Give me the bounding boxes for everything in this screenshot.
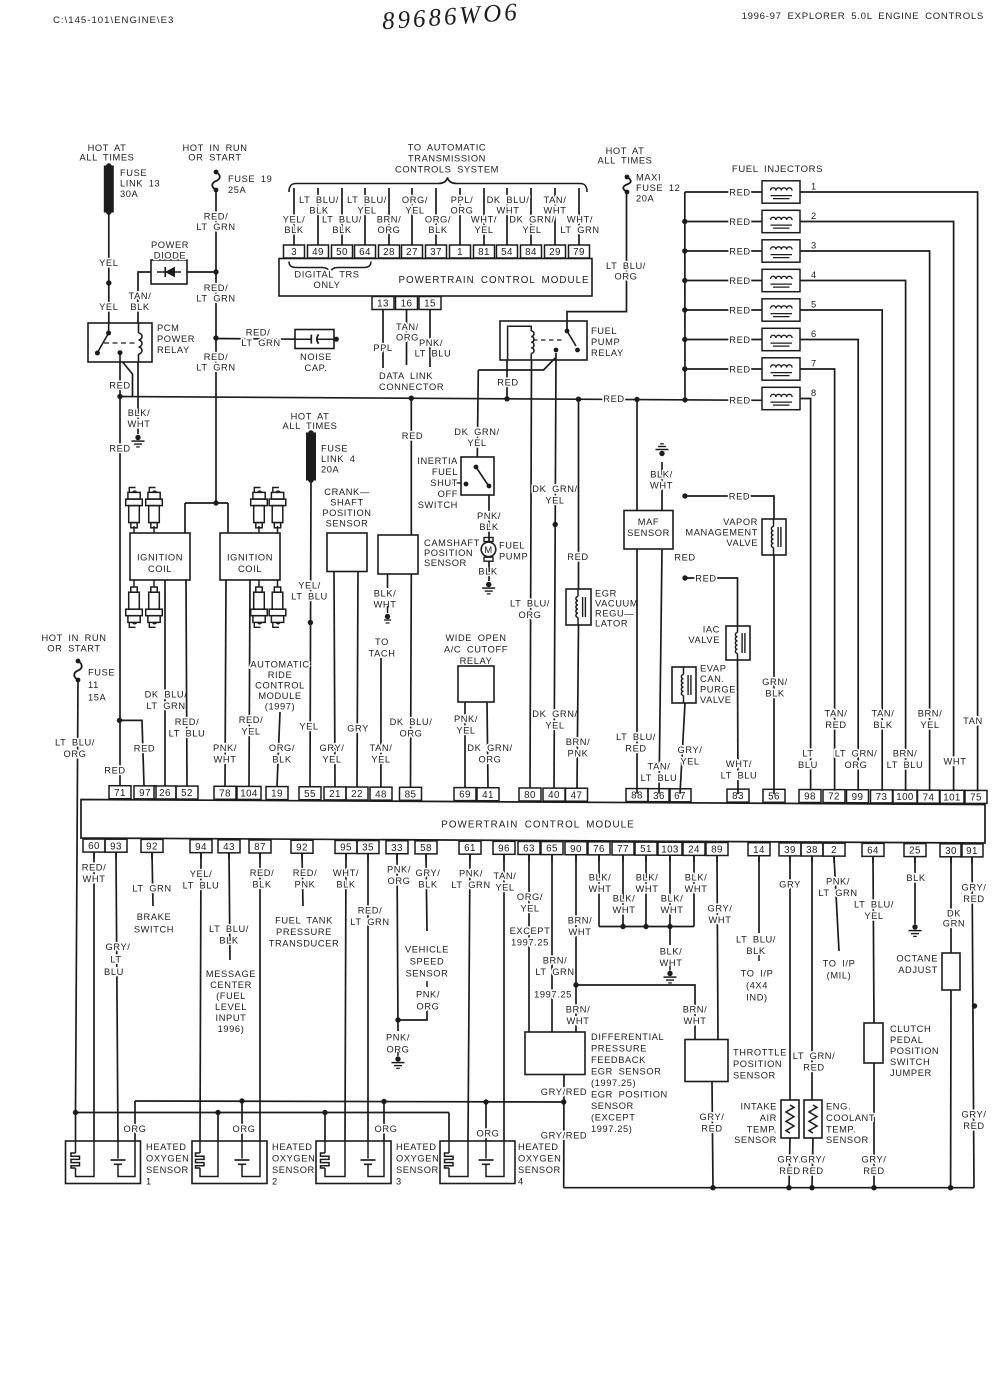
svg-text:DK BLU/: DK BLU/ (145, 690, 188, 700)
svg-text:YEL: YEL (920, 720, 939, 730)
svg-text:PNK/: PNK/ (826, 877, 850, 887)
wire RED feed injector 6 (685, 339, 762, 341)
svg-text:RED: RED (729, 492, 750, 502)
svg-text:RED/: RED/ (204, 212, 229, 222)
svg-text:YEL: YEL (545, 496, 564, 506)
svg-text:89: 89 (711, 845, 723, 856)
svg-text:FUEL: FUEL (432, 467, 458, 477)
svg-text:97: 97 (139, 788, 151, 799)
svg-text:HOT IN RUN: HOT IN RUN (41, 633, 106, 643)
svg-text:RELAY: RELAY (591, 348, 624, 358)
vapor management valve box (762, 519, 786, 555)
PCM pin 90 (bottom row) (565, 842, 587, 855)
svg-text:CONNECTOR: CONNECTOR (379, 382, 444, 392)
svg-text:GRY/: GRY/ (678, 745, 703, 755)
svg-text:(1997): (1997) (265, 702, 295, 712)
svg-text:85: 85 (405, 789, 417, 800)
PCM pin 48 (top row) (370, 787, 392, 800)
wire LT BLU/ORG into sensor 1 heater (75, 1113, 77, 1142)
wire ORG/YEL pin 63 to DPFE sensor (528, 854, 530, 1032)
svg-text:25A: 25A (228, 185, 247, 195)
svg-text:16: 16 (401, 299, 413, 310)
svg-text:103: 103 (661, 844, 679, 855)
svg-text:COOLANT: COOLANT (826, 1113, 875, 1123)
svg-text:1996-97 EXPLORER 5.0L ENGINE C: 1996-97 EXPLORER 5.0L ENGINE CONTROLS (742, 11, 984, 22)
PCM pin 74 (top row) (918, 790, 940, 803)
svg-text:1997.25: 1997.25 (534, 990, 572, 1000)
svg-text:IAC: IAC (703, 625, 720, 635)
svg-text:RELAY: RELAY (157, 345, 190, 355)
wire transmission pin 27 (411, 188, 413, 245)
connector pin 81 (474, 245, 495, 258)
wire LT BLU/BLK pin 43 to message center (229, 853, 230, 960)
svg-text:RED: RED (803, 1063, 824, 1073)
svg-text:VACUUM: VACUUM (595, 599, 638, 609)
svg-text:WHT: WHT (636, 884, 659, 894)
svg-text:AUTOMATIC: AUTOMATIC (250, 660, 309, 670)
svg-text:98: 98 (804, 792, 816, 803)
PCM pin 35 (bottom row) (357, 841, 379, 854)
svg-text:3: 3 (396, 1177, 402, 1187)
svg-text:BLK: BLK (765, 689, 785, 699)
PCM power relay switch (106, 331, 111, 336)
svg-text:BRN/: BRN/ (566, 737, 591, 747)
svg-text:WHT: WHT (661, 905, 684, 915)
PCM pin 85 (top row) (400, 787, 422, 800)
svg-text:TAN/: TAN/ (129, 291, 152, 301)
ground BLK/WHT relay (135, 435, 140, 440)
svg-text:RED: RED (729, 187, 750, 197)
svg-text:55: 55 (304, 789, 316, 800)
svg-text:WHT/: WHT/ (333, 868, 359, 878)
wire WHT/BLK pin 95 to oxygen sensor 3 (345, 853, 346, 1141)
svg-text:BLK: BLK (479, 522, 499, 532)
wire GRY pin 39 to intake air temp sensor (789, 856, 791, 1100)
svg-text:POWER: POWER (157, 334, 195, 344)
svg-text:YEL: YEL (99, 258, 118, 268)
ground PNK/ORG (395, 1056, 400, 1061)
junction camshaft RED wire on bus (409, 396, 414, 401)
svg-text:GRY/: GRY/ (700, 1112, 725, 1122)
svg-text:POSITION: POSITION (322, 508, 371, 518)
svg-text:WHT: WHT (944, 757, 967, 767)
svg-text:HOT IN RUN: HOT IN RUN (182, 143, 247, 153)
fuel pump relay box (500, 321, 587, 360)
svg-text:FEEDBACK: FEEDBACK (591, 1055, 646, 1065)
svg-text:GRY/RED: GRY/RED (541, 1131, 587, 1141)
svg-text:BLK: BLK (418, 880, 438, 890)
svg-text:72: 72 (828, 792, 840, 803)
svg-text:RIDE: RIDE (268, 670, 293, 680)
svg-text:BLK/: BLK/ (374, 589, 397, 599)
svg-text:73: 73 (876, 792, 888, 803)
svg-text:CAP.: CAP. (305, 363, 328, 373)
svg-text:LT BLU/: LT BLU/ (736, 935, 776, 945)
junction IAC branch (682, 575, 687, 580)
svg-text:1996): 1996) (218, 1024, 245, 1034)
svg-text:LT GRN: LT GRN (196, 363, 235, 373)
ground MAF (inverted) (661, 462, 663, 511)
PCM pin 83 (top row) (727, 789, 749, 802)
svg-text:LT BLU: LT BLU (291, 592, 328, 602)
svg-text:2: 2 (831, 845, 837, 856)
svg-text:WHT/: WHT/ (471, 215, 497, 225)
PCM pin 36 (top row) (648, 789, 670, 802)
svg-text:VALVE: VALVE (688, 635, 720, 645)
svg-text:DK: DK (947, 909, 961, 919)
svg-text:93: 93 (110, 841, 122, 852)
svg-text:2: 2 (272, 1177, 278, 1187)
svg-text:M: M (484, 545, 493, 556)
connector pin 13 (372, 297, 394, 310)
svg-text:SHUT: SHUT (430, 478, 458, 488)
svg-text:SENSOR: SENSOR (591, 1101, 634, 1111)
svg-text:TO I/P: TO I/P (823, 959, 856, 969)
svg-text:ORG: ORG (845, 760, 868, 770)
svg-text:BRN/: BRN/ (918, 709, 943, 719)
svg-text:LT BLU/: LT BLU/ (606, 261, 646, 271)
svg-text:IND): IND) (746, 993, 768, 1003)
wire RED bus to MAF sensor (636, 400, 638, 511)
wire BRN/PNK EGR regulator to PCM pin 47 (577, 625, 579, 788)
wire TAN/YEL to PCM pin 48 (380, 658, 382, 787)
svg-text:SENSOR: SENSOR (627, 528, 670, 538)
wire YEL fuse link 13 to PCM power relay (108, 212, 110, 323)
svg-text:SENSOR: SENSOR (518, 1165, 561, 1175)
EVAP canister purge valve box (672, 667, 696, 703)
svg-text:LT BLU/: LT BLU/ (322, 215, 362, 225)
svg-text:BLK: BLK (332, 225, 352, 235)
svg-text:ALL TIMES: ALL TIMES (80, 153, 135, 163)
PCM pin 19 (top row) (266, 787, 288, 800)
svg-text:LATOR: LATOR (595, 619, 628, 629)
svg-text:EXCEPT: EXCEPT (510, 926, 551, 936)
svg-text:OFF: OFF (438, 489, 458, 499)
svg-text:RED: RED (104, 766, 125, 776)
wire YEL/LT BLU fuse link 4 to PCM pin 55 (310, 480, 311, 787)
svg-text:21: 21 (329, 789, 341, 800)
wires BLK/WHT pins 76 77 51 103 24 (598, 855, 600, 927)
fuel pump relay dashed link (533, 339, 562, 341)
svg-text:ORG: ORG (124, 1124, 147, 1134)
wide open A/C cutoff relay box (458, 666, 494, 702)
PCM pin 51 (bottom row) (635, 842, 657, 855)
splice YEL/LT BLU (308, 620, 313, 625)
wire ORG drop to oxygen sensor 1 (134, 1101, 136, 1141)
svg-text:RED: RED (779, 1166, 800, 1176)
wire drop to oxygen sensor 3 heater (322, 1110, 327, 1115)
wire RED/WHT pin 60 to oxygen sensor 1 (93, 852, 95, 1141)
wire transmission pin 64 (364, 188, 366, 245)
PCM pin 73 (top row) (871, 790, 893, 803)
PCM pin 76 (bottom row) (588, 842, 610, 855)
svg-text:RED: RED (729, 276, 750, 286)
svg-text:YEL: YEL (545, 721, 564, 731)
svg-text:WHT: WHT (374, 600, 397, 610)
svg-text:6: 6 (811, 329, 817, 339)
svg-text:OXYGEN: OXYGEN (518, 1154, 561, 1164)
PCM pin 40 (top row) (543, 788, 565, 801)
svg-text:30: 30 (945, 846, 957, 857)
junction relay coil RED on bus (504, 396, 509, 401)
svg-text:POSITION: POSITION (890, 1046, 939, 1056)
wire RED feed injector 2 (685, 221, 762, 223)
svg-text:104: 104 (240, 789, 258, 800)
svg-text:PPL: PPL (373, 343, 392, 353)
svg-text:TAN/: TAN/ (872, 709, 895, 719)
power diode symbol (157, 271, 181, 273)
svg-text:SENSOR: SENSOR (733, 1071, 776, 1081)
svg-text:WHT: WHT (660, 958, 683, 968)
svg-text:WHT: WHT (650, 481, 673, 491)
svg-text:RED: RED (825, 720, 846, 730)
connector pin 49 (308, 245, 329, 258)
svg-text:RED/: RED/ (239, 715, 264, 725)
svg-text:67: 67 (674, 791, 686, 802)
ignition coil 2 box (220, 533, 280, 580)
MAF sensor box (624, 511, 673, 550)
svg-text:FUSE 12: FUSE 12 (636, 183, 680, 193)
svg-text:POWERTRAIN CONTROL MODULE: POWERTRAIN CONTROL MODULE (398, 275, 589, 286)
wire injector 5 to PCM (800, 310, 882, 791)
wire LT GRN/RED pin 38 to coolant temp sensor (811, 856, 813, 1100)
svg-text:TAN/: TAN/ (494, 871, 517, 881)
svg-text:RED: RED (567, 552, 588, 562)
svg-text:RED: RED (729, 396, 750, 406)
svg-text:RED: RED (497, 378, 518, 388)
spark plug 6 (below coil 1) (153, 580, 155, 587)
svg-text:PRESSURE: PRESSURE (591, 1044, 647, 1054)
svg-text:BRN/: BRN/ (568, 916, 593, 926)
svg-text:1: 1 (457, 247, 463, 258)
wire RED/LT GRN pin 35 to oxygen sensor 3 (367, 854, 369, 1141)
svg-text:BRN/: BRN/ (683, 1005, 708, 1015)
wire RED feed injector 3 (685, 250, 762, 252)
svg-text:GRY/: GRY/ (416, 868, 441, 878)
PCM pin 64 (bottom row) (862, 843, 884, 856)
svg-text:(FUEL: (FUEL (216, 991, 246, 1001)
svg-text:LT GRN: LT GRN (146, 701, 185, 711)
junction noise capacitor branch (213, 335, 218, 340)
svg-text:43: 43 (223, 842, 235, 853)
svg-text:95: 95 (340, 843, 352, 854)
svg-text:TAN/: TAN/ (648, 762, 671, 772)
svg-text:FUEL TANK: FUEL TANK (275, 916, 333, 926)
svg-text:RED/: RED/ (293, 868, 318, 878)
svg-text:LT BLU: LT BLU (887, 760, 924, 770)
svg-text:PNK/: PNK/ (419, 338, 443, 348)
wire GRY crank sensor to PCM pin 22 (357, 572, 358, 788)
svg-text:BLK: BLK (284, 225, 304, 235)
oxygen sensor 1 cell element (117, 1141, 119, 1159)
svg-text:CRANK—: CRANK— (324, 487, 370, 497)
svg-text:(EXCEPT: (EXCEPT (591, 1113, 636, 1123)
svg-text:56: 56 (768, 791, 780, 802)
wire BLK/WHT relay coil to ground (137, 362, 139, 434)
svg-text:LT BLU/: LT BLU/ (854, 900, 894, 910)
junction ignition feed split (213, 500, 218, 505)
oxygen sensor 2 cell element (241, 1141, 243, 1159)
svg-text:LT GRN/: LT GRN/ (835, 749, 878, 759)
svg-text:26: 26 (159, 788, 171, 799)
svg-text:5: 5 (811, 300, 817, 310)
svg-text:DIGITAL TRS: DIGITAL TRS (294, 270, 359, 280)
svg-text:ORG/: ORG/ (269, 743, 295, 753)
svg-text:YEL: YEL (474, 225, 493, 235)
svg-text:GRY: GRY (347, 724, 369, 734)
svg-text:YEL: YEL (299, 722, 318, 732)
svg-text:LT GRN: LT GRN (196, 294, 235, 304)
svg-text:EGR: EGR (595, 589, 617, 599)
connector pin 64 (355, 245, 376, 258)
svg-text:CLUTCH: CLUTCH (890, 1024, 931, 1034)
svg-text:1: 1 (146, 1177, 152, 1187)
svg-text:LT BLU: LT BLU (169, 729, 206, 739)
connector pin 29 (545, 245, 566, 258)
oxygen sensor 4 heater element (448, 1141, 450, 1153)
svg-text:BLK/: BLK/ (660, 947, 683, 957)
PCM pin 33 (bottom row) (386, 841, 408, 854)
PCM power relay coil (138, 323, 140, 333)
wire PNK/BLK inertia to fuel pump (488, 495, 490, 541)
svg-text:YEL: YEL (99, 302, 118, 312)
svg-text:WHT/: WHT/ (567, 215, 593, 225)
svg-text:A/C CUTOFF: A/C CUTOFF (444, 645, 508, 655)
svg-text:PNK/: PNK/ (454, 714, 478, 724)
svg-text:15: 15 (424, 299, 436, 310)
PCM pin 92 (bottom row) (141, 839, 163, 852)
svg-text:64: 64 (359, 247, 371, 258)
svg-text:FUSE 19: FUSE 19 (228, 174, 272, 184)
svg-text:92: 92 (146, 841, 158, 852)
svg-text:30A: 30A (120, 189, 139, 199)
svg-text:PNK/: PNK/ (387, 865, 411, 875)
junction power diode to RED/LT GRN wire (213, 269, 218, 274)
svg-text:61: 61 (464, 843, 476, 854)
svg-text:48: 48 (375, 789, 387, 800)
connector pin 27 (402, 245, 423, 258)
svg-text:29: 29 (549, 247, 561, 258)
svg-text:ORG: ORG (375, 1124, 398, 1134)
svg-text:YEL/: YEL/ (298, 581, 321, 591)
svg-text:PNK: PNK (295, 880, 316, 890)
wire transmission pin 81 (483, 188, 485, 245)
svg-text:47: 47 (571, 790, 583, 801)
svg-text:ORG: ORG (417, 1002, 440, 1012)
inertia switch contacts (474, 465, 479, 470)
fuel injector 1 (762, 181, 800, 203)
spark plug 8 (below coil 2) (277, 580, 279, 587)
svg-text:SWITCH: SWITCH (418, 500, 458, 510)
oxygen sensor 1 heater element (75, 1141, 77, 1153)
PCM pin 100 (top row) (893, 790, 917, 803)
svg-text:SENSOR: SENSOR (396, 1165, 439, 1175)
svg-text:BLK: BLK (252, 880, 272, 890)
wire transmission pin 37 (435, 188, 437, 245)
svg-text:69: 69 (459, 790, 471, 801)
PCM pin 98 (top row) (799, 790, 821, 803)
EGR vacuum regulator box (566, 589, 591, 625)
svg-text:RED: RED (802, 1166, 823, 1176)
spark plug 1 (above coil 1) (133, 526, 135, 533)
svg-text:54: 54 (501, 247, 513, 258)
svg-text:1997.25): 1997.25) (591, 1124, 633, 1134)
wire BLK/WHT camshaft to ground (387, 574, 389, 588)
powertrain control module (top) box U1 (279, 259, 592, 297)
spark plug 5 (below coil 1) (133, 580, 135, 587)
svg-text:35: 35 (362, 843, 374, 854)
PCM pin 87 (bottom row) (249, 840, 271, 853)
heated oxygen sensor 1 box (66, 1141, 141, 1184)
wire injector 7 to PCM (800, 369, 835, 791)
connector pin 37 (426, 245, 447, 258)
wire YEL/LT BLU pin 94 to oxygen sensor 2 (200, 853, 201, 1141)
svg-text:81: 81 (478, 247, 490, 258)
connector pin 3 (284, 245, 305, 258)
PCM pin 58 (bottom row) (415, 841, 437, 854)
svg-text:22: 22 (351, 789, 363, 800)
svg-text:GRY/: GRY/ (106, 942, 131, 952)
svg-text:41: 41 (482, 790, 494, 801)
svg-text:49: 49 (312, 247, 324, 258)
junction PNK/ORG VSS (395, 1017, 400, 1022)
wire RED/LT GRN fuse 19 down to ignition coils (215, 190, 217, 503)
svg-text:FUEL: FUEL (499, 541, 525, 551)
svg-text:11: 11 (88, 680, 99, 690)
heated oxygen sensor 3 box (316, 1141, 391, 1184)
wire RED feed injector 4 (685, 280, 762, 282)
svg-text:BLK: BLK (130, 302, 150, 312)
svg-text:SENSOR: SENSOR (424, 558, 467, 568)
wire RED bus to injectors vertical (684, 192, 686, 400)
svg-text:INERTIA: INERTIA (417, 456, 458, 466)
junction ORG bus A end on DPFE wire (561, 1099, 566, 1104)
svg-text:POSITION: POSITION (424, 548, 473, 558)
svg-text:13: 13 (377, 299, 389, 310)
wire transmission pin 50 (341, 188, 343, 245)
svg-text:PURGE: PURGE (700, 685, 736, 695)
PCM pin 55 (top row) (299, 787, 321, 800)
svg-text:52: 52 (181, 788, 193, 799)
svg-text:CAN.: CAN. (700, 674, 725, 684)
wire BLK/WHT join (599, 926, 694, 928)
svg-text:C:\145-101\ENGINE\E3: C:\145-101\ENGINE\E3 (53, 15, 174, 26)
svg-text:20A: 20A (321, 465, 340, 475)
svg-text:SENSOR: SENSOR (272, 1165, 315, 1175)
svg-text:15A: 15A (88, 693, 107, 703)
fuel injector 2 (762, 210, 800, 232)
noise capacitor (295, 330, 334, 349)
svg-text:2: 2 (811, 211, 817, 221)
svg-text:RED: RED (863, 1166, 884, 1176)
svg-text:8: 8 (811, 388, 817, 398)
IAC valve box (726, 626, 750, 660)
clutch pedal position switch jumper box (864, 1023, 883, 1063)
svg-text:BRN/: BRN/ (377, 215, 402, 225)
svg-text:20A: 20A (636, 194, 655, 204)
svg-text:MANAGEMENT: MANAGEMENT (685, 528, 758, 538)
wire GRY/RED pin 91 to bottom bus (972, 857, 974, 1188)
svg-text:RED: RED (625, 744, 646, 754)
wire injector 3 to PCM (800, 251, 930, 791)
wire feed to ignition coil 2 (227, 503, 229, 533)
connector pin 54 (497, 245, 518, 258)
wire RED feed injector 1 (685, 191, 762, 193)
svg-text:WHT: WHT (613, 905, 636, 915)
svg-text:RED: RED (729, 246, 750, 256)
svg-text:DIFFERENTIAL: DIFFERENTIAL (591, 1032, 664, 1042)
fuel pump motor M1 (484, 538, 493, 542)
